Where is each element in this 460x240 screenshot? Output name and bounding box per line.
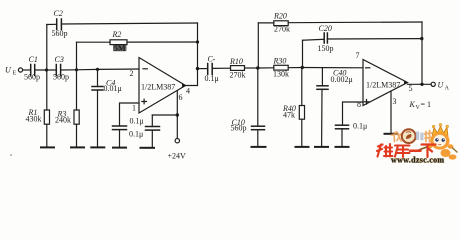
- op-amp U1 minus sign: [143, 68, 147, 70]
- op-amp U2 plus sign: [364, 100, 369, 105]
- wire R20 rail left horizontal: [258, 22, 274, 24]
- capacitor C: [208, 64, 213, 75]
- svg-text:8: 8: [357, 100, 361, 109]
- wire pin6 branch to 0.1u cap: [152, 114, 177, 116]
- svg-text:C: C: [208, 54, 214, 63]
- resistor R10: [231, 66, 245, 71]
- wire node B to op-amp U2 inverting input pin7: [302, 67, 363, 69]
- ground pin8 cap: [336, 146, 349, 148]
- svg-text:560p: 560p: [53, 73, 69, 82]
- resistor R1: [44, 70, 49, 146]
- capacitor C4: [92, 69, 103, 146]
- capacitor C1: [31, 65, 35, 76]
- svg-text:C3: C3: [55, 55, 64, 64]
- capacitor 0.1u at pin1: [113, 126, 127, 147]
- wire C20 branch vertical from node B: [302, 40, 304, 67]
- svg-text:1/2LM387: 1/2LM387: [366, 80, 400, 89]
- svg-text:0.1μ: 0.1μ: [130, 117, 144, 126]
- wire op-amp U2 pin3 to ground: [390, 91, 392, 133]
- svg-text:3: 3: [393, 97, 397, 106]
- resistor R20: [274, 21, 288, 26]
- watermark red text 库: [395, 146, 410, 158]
- wire R2 rail right horizontal: [127, 41, 198, 43]
- svg-text:2: 2: [130, 69, 134, 78]
- svg-text:C1: C1: [29, 55, 38, 64]
- watermark red text 下: [422, 145, 436, 158]
- node N3: [96, 68, 99, 71]
- wire N3 to op-amp U1 inverting input pin2: [98, 68, 140, 70]
- resistor R2: [110, 40, 127, 45]
- svg-text:www.dzsc.com: www.dzsc.com: [391, 155, 444, 164]
- svg-text:R20: R20: [273, 12, 287, 21]
- ground R3: [71, 146, 84, 148]
- wire op-amp U1 pin6 vertical: [176, 91, 178, 139]
- svg-text:5: 5: [409, 84, 413, 93]
- op-amp U1 output apex blob: [182, 84, 187, 88]
- wire R2 rail left vertical from N2: [76, 42, 78, 70]
- node C20 right junction: [420, 37, 423, 40]
- svg-text:1: 1: [132, 104, 136, 113]
- capacitor C40 from input wire to ground: [317, 68, 328, 146]
- svg-text:0.01μ: 0.01μ: [104, 84, 122, 93]
- wire R20 rail left vertical from node A: [257, 23, 259, 68]
- capacitor C2: [57, 19, 62, 30]
- svg-text:270k: 270k: [230, 71, 246, 80]
- op-amp U1 1/2LM387: [139, 58, 186, 114]
- wire R30 to node B: [288, 67, 302, 69]
- watermark mascot right hand: [448, 144, 454, 148]
- watermark brown circle badge: [402, 129, 416, 143]
- svg-text:7: 7: [356, 51, 360, 60]
- +24V supply terminal: [175, 139, 179, 143]
- node A: [256, 66, 259, 69]
- ground C4: [91, 146, 104, 148]
- capacitor 0.1u at pin6: [146, 115, 160, 147]
- svg-text:A: A: [445, 85, 450, 91]
- capacitor C3: [56, 65, 60, 76]
- watermark faint orange glyph right: [425, 131, 432, 143]
- node B: [301, 66, 304, 69]
- wire op-amp U1 pin1 plus input: [120, 103, 140, 126]
- svg-text:270k: 270k: [274, 24, 290, 33]
- capacitor C20: [324, 33, 327, 43]
- node feedback R2 junction: [196, 40, 199, 43]
- svg-text:4: 4: [186, 87, 190, 96]
- svg-text:560p: 560p: [52, 29, 68, 38]
- svg-text:240k: 240k: [55, 116, 71, 125]
- wire op-amp U2 output pin5: [408, 83, 432, 85]
- capacitor 0.1u at pin8: [336, 125, 349, 146]
- svg-text:E: E: [13, 71, 17, 77]
- watermark mascot body: [441, 149, 451, 157]
- wire input terminal to C1: [23, 69, 30, 71]
- svg-text:150p: 150p: [318, 44, 334, 53]
- watermark mascot head: [430, 132, 449, 149]
- svg-text:R10: R10: [229, 57, 243, 66]
- wire N2 to node N3: [77, 68, 98, 70]
- svg-text:430k: 430k: [26, 115, 42, 124]
- op-amp U2 output apex blob: [404, 81, 409, 85]
- svg-text:0.1μ: 0.1μ: [129, 130, 143, 139]
- resistor R40 from node B to ground: [299, 68, 304, 146]
- node output U1: [196, 67, 199, 70]
- watermark red text 维: [377, 144, 393, 157]
- wire R20 rail right horizontal: [288, 21, 422, 24]
- watermark red text 一: [410, 150, 421, 153]
- wire output node to capacitor C: [198, 68, 208, 70]
- watermark blue-gray marks: [416, 132, 424, 141]
- speck bottom left: [10, 154, 12, 156]
- node pin6 branch: [176, 113, 179, 116]
- wire R10 to node A: [245, 67, 258, 69]
- watermark mascot crown: [432, 126, 448, 137]
- watermark mascot eyes: [435, 138, 438, 141]
- wire op-amp U1 output pin4 up to feedback node: [186, 69, 198, 86]
- wire C3 to node N2: [61, 69, 77, 71]
- ground R1: [41, 146, 54, 148]
- wire node A to R30: [258, 67, 274, 69]
- value 5M R2 smudged: [113, 45, 127, 52]
- watermark logo cluster: [392, 129, 432, 143]
- ground pin3: [385, 133, 398, 135]
- svg-text:130k: 130k: [273, 70, 289, 79]
- watermark mascot wand arm: [415, 145, 433, 152]
- svg-text:= 1: = 1: [421, 100, 432, 109]
- ground R40: [296, 146, 309, 148]
- wire R20 rail right vertical down to U2 output: [421, 22, 423, 84]
- op-amp U2 minus sign: [366, 67, 370, 69]
- svg-text:0.1μ: 0.1μ: [353, 122, 367, 131]
- ground C40: [315, 146, 328, 148]
- ground pin1 cap: [113, 147, 126, 149]
- svg-text:U: U: [438, 81, 445, 90]
- wire feedback vertical at x197.5: [197, 23, 199, 69]
- svg-text:0.1μ: 0.1μ: [205, 74, 219, 83]
- wire R2 rail left horizontal: [77, 41, 111, 43]
- wire C2 rail top left: [47, 23, 57, 25]
- svg-text:6: 6: [179, 93, 183, 102]
- wire C2 feedback rail left vertical: [46, 25, 48, 71]
- wire C2 rail top right: [61, 23, 197, 24]
- wire C20 branch left horizontal: [303, 38, 325, 41]
- node U2 output feedback junction: [420, 83, 423, 86]
- svg-text:47k: 47k: [283, 110, 295, 119]
- watermark mascot mouth: [438, 143, 441, 146]
- wire C20 right horizontal to feedback vertical: [327, 38, 421, 40]
- svg-text:U: U: [5, 66, 12, 75]
- ground pin6 cap: [141, 147, 155, 149]
- svg-text:K: K: [409, 100, 416, 109]
- svg-text:R2: R2: [112, 30, 122, 39]
- svg-text:5M: 5M: [114, 44, 126, 53]
- node N1: [45, 68, 48, 71]
- wire C1 to node N1: [35, 69, 56, 71]
- svg-text:+24V: +24V: [168, 151, 187, 160]
- wire C to R10: [213, 67, 231, 69]
- ground C10: [252, 146, 266, 148]
- wire op-amp U2 pin8 plus input: [343, 102, 364, 125]
- op-amp U2 1/2LM387: [363, 60, 408, 106]
- resistor R3: [74, 70, 79, 147]
- svg-text:C2: C2: [54, 9, 63, 18]
- input terminal U_E: [18, 68, 22, 72]
- output terminal U_A: [431, 82, 435, 86]
- op-amp U1 plus sign: [142, 99, 147, 104]
- watermark faint orange glyph left: [392, 132, 402, 142]
- svg-text:C20: C20: [319, 24, 332, 33]
- resistor R30: [274, 65, 288, 70]
- svg-text:560p: 560p: [231, 123, 247, 132]
- node N2: [75, 68, 78, 71]
- svg-text:R30: R30: [273, 57, 287, 66]
- capacitor C10 from node A to ground: [252, 68, 265, 146]
- svg-text:1/2LM387: 1/2LM387: [141, 82, 175, 91]
- svg-text:0.002μ: 0.002μ: [331, 75, 353, 84]
- svg-text:560p: 560p: [24, 73, 40, 82]
